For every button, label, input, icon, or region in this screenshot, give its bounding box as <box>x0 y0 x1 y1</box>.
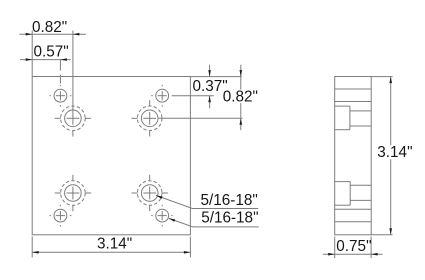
svg-text:5/16-18": 5/16-18" <box>201 192 258 209</box>
hole A1 centermark <box>49 91 71 107</box>
hole A2 (small top-right) circle <box>156 89 169 102</box>
side view: small hole bottom through lines <box>335 209 372 222</box>
hole B2 (large tapped top-right) solid circle <box>141 110 158 127</box>
svg-text:0.75": 0.75" <box>336 238 371 255</box>
dimension 0.82 top: right extension line down to hole B1 <box>72 31 74 125</box>
leader line 5/16-18 lower (to hole A4) <box>169 218 259 227</box>
arrow 0.82v bottom (points up) <box>240 118 243 125</box>
leader line 5/16-18 upper (to hole B4) <box>156 195 258 208</box>
hole A4 centermark <box>151 205 173 227</box>
hole A3 (small bottom-left) circle <box>54 209 67 222</box>
arrow 3.14 front right (points right) <box>184 251 191 254</box>
arrow 0.75 left (points right) <box>328 253 335 256</box>
dimension 3.14 side: bottom extension line <box>371 234 392 236</box>
dimension 3.14 front: right extension line <box>189 237 191 258</box>
hole B3 centermark <box>55 175 91 211</box>
hole A2 extension line to 0.37 dim <box>172 95 214 97</box>
arrow 0.82 top left (points right) <box>26 33 33 36</box>
side view outline <box>335 77 372 235</box>
svg-text:0.82": 0.82" <box>32 19 67 36</box>
svg-text:5/16-18": 5/16-18" <box>201 210 258 227</box>
svg-text:3.14": 3.14" <box>377 144 412 161</box>
arrow 3.14 side top (points up) <box>389 77 392 84</box>
dimension 3.14 front: dim line <box>32 251 190 253</box>
side view: counterbore top box <box>335 106 350 130</box>
hole B3 (large tapped bottom-left) solid circle <box>65 185 82 202</box>
hole A1 (small top-left) circle <box>54 89 67 102</box>
arrow 0.82 top right (points left) <box>73 33 80 36</box>
arrow leader1 (points to hole B4) <box>156 195 163 199</box>
side view: tapped hole bottom lines <box>350 185 371 200</box>
hole A2 centermark <box>151 85 167 107</box>
dimension 0.75: left extension line <box>334 237 336 259</box>
dimension 0.75: dim line <box>323 253 383 255</box>
top edge extension line to vertical dims <box>190 76 241 78</box>
arrow leader2 (points to hole A4) <box>169 218 175 221</box>
hole B4 thread dashed circle <box>137 181 162 206</box>
svg-text:0.82": 0.82" <box>223 88 258 105</box>
front view plate outline <box>32 77 190 235</box>
arrow 3.14 front left (points left) <box>32 251 39 254</box>
svg-text:3.14": 3.14" <box>97 236 132 253</box>
arrow 0.37 top (points down) <box>208 70 211 77</box>
dimension 0.82 top: dim line <box>19 33 86 35</box>
hole B2 centermark <box>132 100 157 136</box>
dimension 0.82 top: left extension line <box>31 31 33 77</box>
hole B4 (large tapped bottom-right) solid circle <box>141 185 158 202</box>
hole B2 thread dashed circle <box>137 106 162 131</box>
hole B4 centermark <box>132 175 168 211</box>
dimension 0.82 vertical: dim line <box>240 65 242 131</box>
arrow 3.14 side bottom (points down) <box>389 228 392 235</box>
dimension 3.14 side: top extension line <box>371 76 392 78</box>
dimension 0.75: right extension line <box>370 237 372 259</box>
arrow 0.57 left (points right) <box>26 58 33 61</box>
arrow 0.57 right (points left) <box>60 58 67 61</box>
arrow 0.75 right (points left) <box>371 253 378 256</box>
hole B1 (large tapped top-left) solid circle <box>65 110 82 127</box>
side view: small hole top through lines <box>335 89 372 102</box>
white mask behind 3.14 side text <box>377 145 413 159</box>
hole B1 centermark <box>55 118 91 136</box>
arrow 0.37 bottom (points up) <box>208 96 211 103</box>
dimension 0.57: right extension line toward hole A1 <box>59 60 61 87</box>
hole B3 thread dashed circle <box>61 181 86 206</box>
white mask behind 0.82 vertical text <box>222 90 260 104</box>
side view: counterbore bottom box <box>335 182 351 206</box>
arrowheads <box>26 33 392 256</box>
hole B2 extension line to 0.82 dim <box>159 117 243 119</box>
side view: tapped hole top lines <box>350 111 371 126</box>
hole B1 thread/counterbore dashed circle <box>61 106 86 131</box>
dimension 0.37 vertical: dim line segments <box>209 65 211 109</box>
svg-text:0.57": 0.57" <box>34 43 69 60</box>
arrow 0.82v top (points down) <box>240 70 243 77</box>
dimension 3.14 side: dim line <box>390 77 392 235</box>
dimension 3.14 front: left extension line <box>31 237 33 258</box>
dimension 0.57: dim line <box>20 59 71 61</box>
hole A3 centermark <box>49 205 71 227</box>
hole A4 (small bottom-right) circle <box>156 209 169 222</box>
